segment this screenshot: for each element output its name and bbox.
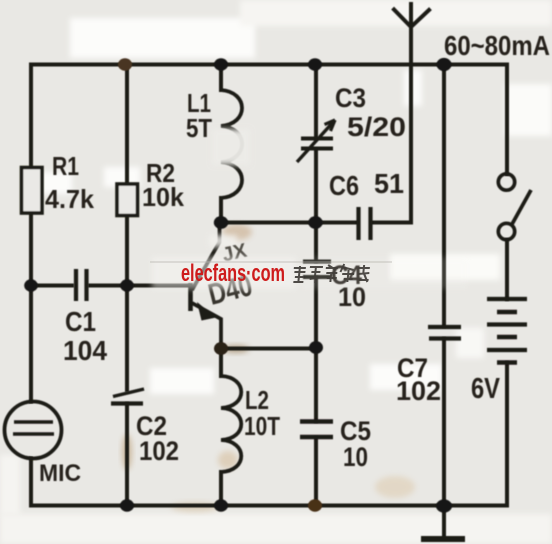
wire R2 column top xyxy=(125,65,129,185)
node bottom ground xyxy=(436,499,452,512)
watermark chinese glyphs xyxy=(292,264,370,283)
tan scan smudges xyxy=(122,224,415,512)
wire C7 column top xyxy=(442,65,446,327)
capacitor C1 plates xyxy=(76,269,87,301)
microphone MIC body xyxy=(5,402,62,459)
transistor Q1 collector xyxy=(192,223,220,291)
wire C3 to node xyxy=(314,150,318,261)
svg-text:elecfans·com: elecfans·com xyxy=(181,260,285,287)
transistor Q1 emitter arrow xyxy=(197,302,216,321)
capacitor C3 arrow xyxy=(297,120,335,162)
switch S contact top xyxy=(498,174,514,190)
wire battery to bottom rail xyxy=(505,363,509,506)
wire bottom rail xyxy=(31,504,507,508)
wire L1 column top stub xyxy=(219,65,223,91)
node top L1 xyxy=(214,58,228,70)
svg-text:102: 102 xyxy=(396,376,441,406)
svg-text:C6: C6 xyxy=(329,170,359,201)
capacitor C6 plates xyxy=(359,207,371,240)
capacitor C5 plates xyxy=(300,422,333,438)
node emitter C4 xyxy=(309,341,323,354)
wire C6 to antenna xyxy=(373,221,411,225)
svg-text:R1: R1 xyxy=(52,151,79,181)
svg-text:5T: 5T xyxy=(186,113,212,143)
node top C7 xyxy=(437,58,452,71)
battery BT long plates xyxy=(487,299,527,350)
node bottom C2 xyxy=(120,499,134,511)
ground bar xyxy=(421,536,465,542)
wire C4 to emitter node xyxy=(314,278,318,422)
node top C3 xyxy=(308,58,322,70)
node base left xyxy=(24,279,38,291)
node base R2 xyxy=(120,279,134,291)
resistor R1 xyxy=(22,168,43,214)
wire C1 to base xyxy=(90,284,188,288)
scan whiteout over L1 xyxy=(212,129,250,165)
wire C7 to bottom rail xyxy=(442,339,446,506)
resistor R2 xyxy=(117,184,138,216)
watermark band xyxy=(152,257,296,289)
capacitor C2 plates xyxy=(113,389,144,397)
ground stub xyxy=(442,506,446,537)
svg-text:60~80mA: 60~80mA xyxy=(444,30,550,61)
antenna lead xyxy=(409,4,413,223)
svg-text:10: 10 xyxy=(343,442,368,472)
node collector xyxy=(214,216,228,229)
wire switch to battery xyxy=(505,240,509,299)
node bottom C5 xyxy=(308,499,322,511)
node top R2 xyxy=(118,58,132,70)
microphone MIC plates xyxy=(13,422,54,434)
watermark rule xyxy=(150,261,392,263)
wire C2 to bottom rail xyxy=(125,404,129,506)
wire top rail xyxy=(31,63,507,67)
wire left column lower xyxy=(29,459,33,506)
wire C5 to bottom rail xyxy=(314,438,318,506)
switch S contact bottom xyxy=(498,223,514,239)
wire left column upper xyxy=(29,65,33,402)
scan whiteout over collector xyxy=(209,235,237,247)
svg-text:4.7k: 4.7k xyxy=(45,184,95,214)
antenna arms xyxy=(394,10,429,28)
wire L1 to collector node xyxy=(219,198,223,223)
node emitter xyxy=(214,342,228,355)
wire L2 to bottom rail xyxy=(219,472,223,506)
wire right column top (to switch) xyxy=(505,65,509,175)
inductor L2 xyxy=(221,376,241,472)
svg-text:102: 102 xyxy=(139,436,179,466)
capacitor C7 plates xyxy=(428,327,461,339)
capacitor C4 plates xyxy=(303,262,331,278)
wire emitter rail xyxy=(221,347,316,351)
transistor Q1 base bar xyxy=(188,283,193,311)
svg-text:51: 51 xyxy=(374,168,404,199)
wire tank node to C6 xyxy=(221,221,356,225)
svg-text:10k: 10k xyxy=(142,182,185,212)
wire L2 top stub xyxy=(219,349,223,377)
capacitor C3 plates xyxy=(301,139,333,149)
svg-text:MIC: MIC xyxy=(39,460,81,487)
node bottom L2 xyxy=(214,499,228,511)
wire R2 column middle xyxy=(125,216,129,391)
svg-text:C3: C3 xyxy=(335,83,366,113)
inductor L1 xyxy=(221,90,242,198)
svg-text:5/20: 5/20 xyxy=(347,112,406,142)
node tank C3 bottom xyxy=(308,216,322,229)
wire base rail xyxy=(31,284,72,288)
svg-text:10T: 10T xyxy=(244,411,280,441)
transistor Q1 emitter xyxy=(192,303,221,349)
wire C3 column top xyxy=(314,65,318,139)
svg-text:6V: 6V xyxy=(471,373,501,405)
svg-text:C1: C1 xyxy=(65,306,96,337)
svg-text:104: 104 xyxy=(63,335,107,366)
switch S lever xyxy=(511,190,531,226)
battery BT short plates xyxy=(497,312,517,363)
